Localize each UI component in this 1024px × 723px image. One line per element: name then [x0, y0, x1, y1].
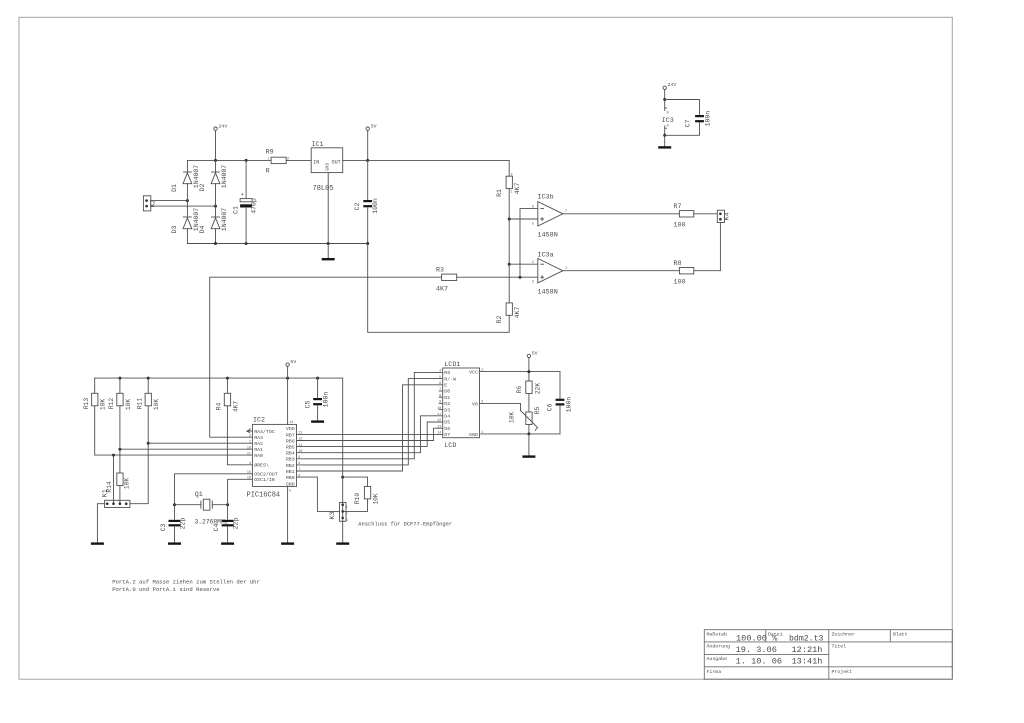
- svg-text:12:21h: 12:21h: [792, 645, 823, 655]
- wire K3 pin3 to ground: [342, 518, 344, 543]
- wire divider middle: [508, 189, 510, 303]
- wire IC1 GND pin to bottom rail and ground: [327, 173, 329, 258]
- node R10 tap: [341, 476, 344, 479]
- wire divider top: [508, 160, 510, 176]
- wire OSC1/IN to crystal: [228, 479, 253, 519]
- svg-text:Titel: Titel: [832, 644, 847, 650]
- svg-text:Ausgabe: Ausgabe: [707, 656, 728, 662]
- resistor R3 4K7: [436, 267, 457, 294]
- svg-text:D3: D3: [171, 226, 178, 234]
- ground (LCD): [522, 455, 535, 457]
- svg-text:15: 15: [247, 471, 251, 475]
- svg-text:K4: K4: [724, 212, 732, 220]
- supply terminal 24V (IC3): [663, 82, 676, 89]
- svg-text:D3: D3: [444, 407, 450, 413]
- svg-text:24V: 24V: [219, 124, 228, 130]
- diode D2 1N4007: [199, 165, 228, 192]
- wire signal to IC3b inverting input: [520, 209, 538, 278]
- svg-text:R/-W: R/-W: [444, 376, 456, 382]
- svg-text:100n: 100n: [565, 397, 572, 413]
- op-amp supply IC3 power pins: [662, 108, 674, 129]
- resistor R6 22K: [516, 381, 542, 394]
- svg-text:PortA.0 und PortA.1 sind Reser: PortA.0 und PortA.1 sind Reserve: [112, 586, 219, 593]
- svg-text:22p: 22p: [232, 518, 239, 530]
- wire RB5 to LCD D5: [297, 422, 443, 447]
- svg-text:24V: 24V: [668, 82, 677, 88]
- svg-text:100: 100: [674, 222, 686, 230]
- wire 5V rail down to K3: [342, 378, 344, 505]
- node IC3 supply junction: [663, 98, 666, 101]
- svg-text:D4: D4: [444, 414, 450, 420]
- svg-text:10K: 10K: [100, 399, 107, 411]
- svg-text:1: 1: [346, 506, 348, 510]
- svg-text:1: 1: [511, 190, 513, 194]
- svg-text:7: 7: [298, 468, 300, 472]
- node RA0 junction: [112, 454, 115, 457]
- svg-text:PortA.2 auf Masse ziehen zum S: PortA.2 auf Masse ziehen zum Stellen der…: [112, 579, 260, 586]
- supply terminal 5V (regulator out): [366, 124, 377, 131]
- IC1 78L05 regulator: [311, 141, 343, 193]
- svg-text:5V: 5V: [290, 359, 296, 365]
- LCD1 display module: [437, 361, 483, 450]
- svg-text:IN: IN: [313, 159, 319, 165]
- wire IC1 OUT to 5V node: [343, 159, 368, 161]
- svg-text:10: 10: [298, 450, 302, 454]
- svg-text:100: 100: [674, 278, 686, 286]
- wire RB6 to LCD D6: [297, 428, 443, 440]
- svg-text:OUT: OUT: [332, 159, 341, 165]
- ground (C4): [221, 542, 234, 544]
- svg-text:Firma: Firma: [707, 669, 722, 675]
- wire 24V terminal to top rail: [215, 130, 217, 160]
- svg-text:22K: 22K: [534, 383, 541, 395]
- svg-text:D2: D2: [444, 401, 450, 407]
- svg-text:Projekt: Projekt: [832, 669, 853, 675]
- node bridge AC nodes: [186, 199, 189, 202]
- resistor R4 4K7 (MCLR pullup): [216, 378, 253, 465]
- supply terminal 5V (LCD): [527, 350, 537, 357]
- svg-text:100n: 100n: [372, 198, 379, 214]
- svg-text:R: R: [266, 167, 270, 175]
- capacitor C4 22p: [213, 518, 239, 543]
- resistor R9: [266, 149, 289, 176]
- svg-text:LCD: LCD: [444, 442, 456, 450]
- wire bottom DC rail: [187, 243, 367, 245]
- wire RA2 line to R11: [148, 442, 252, 444]
- svg-text:10K: 10K: [372, 493, 379, 505]
- svg-text:GND: GND: [469, 432, 478, 438]
- svg-text:C1: C1: [232, 206, 239, 214]
- wire RA0 drop to K1 pin2: [113, 455, 115, 504]
- IC2 PIC16C84: [247, 417, 303, 500]
- diode D3 1N4007: [171, 208, 200, 234]
- wire 5V rail to divider: [368, 159, 510, 161]
- svg-text:RB5: RB5: [286, 445, 295, 451]
- svg-text:IC3b: IC3b: [537, 194, 553, 202]
- wire V0 to wiper: [480, 403, 521, 410]
- wire divider bottom to ground rail: [368, 244, 510, 333]
- capacitor C1 470u: [232, 160, 257, 243]
- supply terminal 5V (VDD): [286, 359, 296, 366]
- svg-text:RA0: RA0: [254, 453, 263, 459]
- wire LCD GND rail: [480, 433, 561, 435]
- wire K1 pin1 to ground: [97, 504, 104, 543]
- node gnd junction: [527, 432, 530, 435]
- svg-text:3: 3: [481, 401, 483, 405]
- ground (K3): [336, 542, 349, 544]
- svg-text:C7: C7: [684, 120, 691, 128]
- resistor R12 10K: [108, 378, 132, 449]
- svg-text:2: 2: [511, 174, 513, 178]
- svg-text:R4: R4: [216, 403, 223, 411]
- svg-text:C4: C4: [213, 524, 220, 532]
- wire C7 bottom branch: [665, 122, 700, 135]
- svg-text:100n: 100n: [322, 392, 329, 408]
- svg-text:12: 12: [298, 438, 302, 442]
- op-amp IC3a 1458N: [532, 252, 567, 297]
- diode D4 1N4007: [199, 208, 228, 234]
- node Vref upper: [508, 218, 511, 221]
- svg-text:10K: 10K: [153, 399, 160, 411]
- pin D2 stub: [439, 402, 443, 404]
- svg-text:7: 7: [439, 388, 441, 392]
- svg-text:R6: R6: [516, 386, 523, 394]
- svg-text:C6: C6: [546, 404, 553, 412]
- wire 5V terminal down: [367, 130, 369, 199]
- svg-text:E: E: [444, 383, 447, 389]
- svg-text:1458N: 1458N: [537, 232, 557, 240]
- svg-text:5: 5: [532, 222, 534, 226]
- svg-text:IC2: IC2: [253, 417, 265, 425]
- wire Vref to IC3a - input: [509, 263, 538, 265]
- svg-text:11: 11: [298, 444, 302, 448]
- wire crystal left: [175, 504, 201, 506]
- capacitor C7 100n: [684, 111, 711, 128]
- svg-text:10K: 10K: [123, 478, 130, 490]
- ground (supply): [322, 258, 335, 260]
- wire IC3 V- pin to ground: [664, 126, 666, 146]
- node IC3 gnd junction: [663, 134, 666, 137]
- resistor R13 10K: [83, 378, 253, 455]
- svg-text:470µ: 470µ: [250, 198, 257, 214]
- svg-text:RB1: RB1: [286, 469, 295, 475]
- svg-text:V0: V0: [472, 401, 478, 407]
- wire R3 right to opamp inputs: [457, 276, 538, 278]
- svg-text:4K7: 4K7: [436, 285, 448, 293]
- svg-text:OSC1/IN: OSC1/IN: [254, 477, 275, 483]
- svg-text:GND: GND: [327, 163, 331, 171]
- wire IC2 GND pin to ground: [287, 487, 289, 543]
- svg-text:RB6: RB6: [286, 438, 295, 444]
- svg-text:9: 9: [439, 401, 441, 405]
- svg-text:1N4007: 1N4007: [221, 165, 228, 189]
- svg-text:R9: R9: [266, 149, 274, 157]
- wire R6 to R5: [528, 394, 530, 413]
- svg-text:10: 10: [437, 407, 441, 411]
- svg-text:RB3: RB3: [286, 457, 295, 463]
- wire IC3b output to R7: [563, 213, 680, 215]
- svg-text:LCD1: LCD1: [444, 361, 460, 369]
- node rail junctions: [118, 377, 121, 380]
- svg-text:R12: R12: [108, 398, 115, 410]
- wire R5 bottom to gnd rail: [528, 425, 530, 434]
- wire K2 pin2 to bridge right node: [151, 205, 216, 207]
- svg-text:5: 5: [289, 490, 291, 494]
- capacitor C3 22p: [160, 518, 186, 543]
- svg-text:D7: D7: [444, 432, 450, 438]
- svg-text:1. 10. 06: 1. 10. 06: [736, 656, 782, 666]
- svg-text:2: 2: [481, 369, 483, 373]
- svg-text:6: 6: [532, 205, 534, 209]
- wire RB7 to LCD D7: [297, 433, 443, 435]
- node C2 bottom / gnd rail: [366, 242, 369, 245]
- svg-text:R11: R11: [136, 398, 143, 410]
- svg-text:16: 16: [247, 477, 251, 481]
- resistor R10 10K: [354, 486, 380, 504]
- svg-text:R7: R7: [674, 203, 682, 211]
- wire C7 top branch: [665, 100, 700, 115]
- wire RA1 line to R12: [120, 448, 253, 450]
- resistor R11 10K: [136, 378, 160, 443]
- svg-text:19. 3.06: 19. 3.06: [736, 645, 777, 655]
- svg-text:R13: R13: [83, 398, 90, 410]
- svg-text:3: 3: [346, 519, 348, 523]
- svg-text:4: 4: [249, 462, 251, 466]
- svg-text:RB0: RB0: [286, 475, 295, 481]
- capacitor C6 100n: [546, 372, 572, 434]
- ground (C5): [311, 420, 324, 422]
- svg-text:8: 8: [667, 112, 669, 116]
- svg-text:5: 5: [439, 376, 441, 380]
- svg-text:Änderung: Änderung: [707, 643, 731, 650]
- svg-text:Blatt: Blatt: [893, 632, 908, 638]
- resistor R8 100: [674, 260, 694, 287]
- wire LCD VCC rail: [480, 358, 561, 381]
- ground (IC2): [281, 542, 294, 544]
- svg-text:3: 3: [532, 281, 534, 285]
- wire IC3a output to R8: [563, 270, 680, 272]
- wire R3 left / feedback to RA3: [210, 277, 442, 437]
- wire R7 to K4 pin1: [694, 213, 718, 215]
- svg-text:VCC: VCC: [469, 370, 478, 376]
- wire K2 pin1 to bridge left node: [151, 200, 188, 202]
- svg-text:2: 2: [249, 434, 251, 438]
- wire Vref to IC3b + input: [509, 218, 538, 220]
- svg-text:D0: D0: [444, 389, 450, 395]
- wire R10 bottom to K3 pin2: [343, 499, 368, 512]
- svg-text:4: 4: [439, 370, 441, 374]
- op-amp IC3b 1458N: [532, 194, 567, 240]
- svg-text:Maßstab: Maßstab: [707, 632, 728, 638]
- svg-text:D6: D6: [444, 426, 450, 432]
- node bottom rail junctions: [214, 242, 217, 245]
- wire OSC2/OUT to crystal: [175, 474, 253, 519]
- svg-text:C2: C2: [354, 203, 361, 211]
- wire crystal right: [212, 504, 227, 506]
- svg-text:10K: 10K: [508, 412, 515, 424]
- connector K3 (DCF77): [329, 503, 348, 523]
- resistor R2 4K7: [496, 303, 521, 324]
- svg-text:6: 6: [298, 474, 300, 478]
- svg-text:K3: K3: [329, 511, 337, 519]
- svg-text:9: 9: [298, 456, 300, 460]
- svg-text:D1: D1: [171, 184, 178, 192]
- node top rail junctions: [214, 159, 217, 162]
- wire gnd stub: [528, 434, 530, 456]
- svg-text:1458N: 1458N: [537, 288, 557, 296]
- svg-text:RB7: RB7: [286, 432, 295, 438]
- node 5V out junction: [366, 159, 369, 162]
- svg-text:RS: RS: [444, 370, 450, 376]
- crystal Q1 3.2768MHz: [195, 491, 229, 525]
- pin D1 stub: [439, 396, 443, 398]
- pin D0 stub: [439, 390, 443, 392]
- resistor R7 100: [674, 203, 694, 230]
- svg-text:1: 1: [481, 431, 483, 435]
- svg-text:2: 2: [532, 261, 534, 265]
- svg-text:1: 1: [268, 158, 270, 162]
- svg-text:13: 13: [298, 432, 302, 436]
- svg-text:Q1: Q1: [195, 491, 203, 499]
- svg-text:78L05: 78L05: [313, 185, 334, 193]
- capacitor C2 100n: [354, 198, 379, 243]
- svg-text:C5: C5: [305, 401, 312, 409]
- node crystal left junction: [173, 503, 176, 506]
- wire 24V to IC3 V+ pin: [664, 90, 666, 111]
- ground (K1): [91, 542, 104, 544]
- svg-text:OSC2/OUT: OSC2/OUT: [254, 472, 278, 478]
- svg-text:bdm2.t3: bdm2.t3: [789, 633, 823, 643]
- resistor R1 4K7: [496, 174, 521, 197]
- svg-text:5V: 5V: [371, 124, 377, 130]
- svg-text:4K7: 4K7: [514, 183, 521, 195]
- svg-text:22p: 22p: [179, 518, 186, 530]
- wire R8 up to K4 pin2: [694, 223, 721, 271]
- connector K1: [101, 489, 130, 507]
- svg-text:R8: R8: [674, 260, 682, 268]
- svg-text:R5: R5: [534, 407, 541, 415]
- svg-text:R10: R10: [354, 493, 361, 505]
- svg-text:D4: D4: [199, 226, 206, 234]
- svg-text:RB4: RB4: [286, 451, 295, 457]
- connector K2: [143, 196, 157, 211]
- svg-text:13:41h: 13:41h: [792, 656, 823, 666]
- svg-text:17: 17: [247, 452, 251, 456]
- svg-text:+: +: [241, 192, 244, 198]
- svg-text:PIC16C84: PIC16C84: [247, 491, 281, 499]
- wire VDD pin up to 5V: [287, 366, 289, 424]
- svg-text:10K: 10K: [125, 399, 132, 411]
- svg-text:1N4007: 1N4007: [221, 208, 228, 232]
- svg-text:Zeichner: Zeichner: [832, 632, 856, 638]
- wire bridge left column: [186, 160, 188, 243]
- node Vref lower: [508, 263, 511, 266]
- node crystal right junction: [226, 503, 229, 506]
- svg-text:2: 2: [287, 158, 289, 162]
- svg-text:R1: R1: [496, 189, 503, 197]
- wire RB2 to LCD R/W: [297, 379, 443, 465]
- svg-text:RB2: RB2: [286, 463, 295, 469]
- svg-text:11: 11: [437, 413, 441, 417]
- svg-text:18: 18: [247, 446, 251, 450]
- node VCC junction: [527, 370, 530, 373]
- svg-text:ØRES\: ØRES\: [254, 462, 269, 469]
- svg-text:RA3: RA3: [254, 435, 263, 441]
- wire R11 down to K1 pin4: [130, 443, 148, 504]
- wire RB1 to LCD E: [297, 385, 443, 471]
- svg-text:IC1: IC1: [312, 141, 324, 149]
- svg-text:Anschluss für DCF77-Empfänger: Anschluss für DCF77-Empfänger: [358, 521, 452, 527]
- svg-text:K1: K1: [101, 489, 109, 497]
- svg-text:D1: D1: [444, 395, 450, 401]
- svg-text:C3: C3: [160, 524, 167, 532]
- svg-text:IC3: IC3: [662, 117, 674, 125]
- svg-text:RA1: RA1: [254, 447, 263, 453]
- svg-text:VDD: VDD: [286, 426, 295, 432]
- NOTES: [112, 579, 260, 593]
- svg-text:14: 14: [289, 421, 293, 425]
- svg-text:R2: R2: [496, 316, 503, 324]
- svg-text:IC3a: IC3a: [537, 252, 553, 260]
- pin RA4/TOC stub with arrow: [247, 430, 253, 433]
- ground (IC3): [658, 146, 671, 148]
- wire RB0 to K3 pin2: [297, 477, 340, 511]
- wire RB4 to LCD D4: [297, 416, 443, 453]
- svg-text:1: 1: [249, 440, 251, 444]
- wire bridge right column: [215, 160, 217, 243]
- connector K4: [717, 210, 731, 222]
- svg-text:14: 14: [437, 432, 441, 436]
- title block: [704, 630, 952, 680]
- ground (C3): [168, 542, 181, 544]
- svg-text:2: 2: [346, 512, 348, 516]
- svg-text:Datei: Datei: [768, 632, 783, 638]
- svg-text:4K7: 4K7: [514, 307, 521, 319]
- svg-text:4K7: 4K7: [232, 401, 239, 413]
- wire 5V rail (MCU section): [95, 377, 343, 379]
- svg-text:13: 13: [437, 425, 441, 429]
- wire R10 top hook: [343, 477, 368, 486]
- svg-text:8: 8: [298, 462, 300, 466]
- svg-text:R3: R3: [436, 267, 444, 275]
- trimmer R5 10K: [508, 407, 540, 431]
- wire RB3 to LCD RS: [297, 372, 443, 458]
- svg-text:8: 8: [439, 394, 441, 398]
- node signal junction: [519, 276, 522, 279]
- svg-text:100n: 100n: [705, 111, 712, 127]
- svg-text:5V: 5V: [532, 350, 538, 356]
- wire top DC rail: [187, 159, 311, 161]
- diode D1 1N4007: [171, 165, 200, 192]
- svg-text:RA4/TOC: RA4/TOC: [254, 429, 275, 435]
- pin D3 stub: [439, 409, 443, 411]
- svg-text:D2: D2: [199, 184, 206, 192]
- svg-text:12: 12: [437, 419, 441, 423]
- capacitor C5 100n: [305, 378, 330, 420]
- supply terminal 24V (bridge): [214, 124, 228, 131]
- resistor R14 10K: [106, 449, 130, 504]
- svg-text:RA2: RA2: [254, 441, 263, 447]
- svg-text:D5: D5: [444, 420, 450, 426]
- svg-text:6: 6: [439, 382, 441, 386]
